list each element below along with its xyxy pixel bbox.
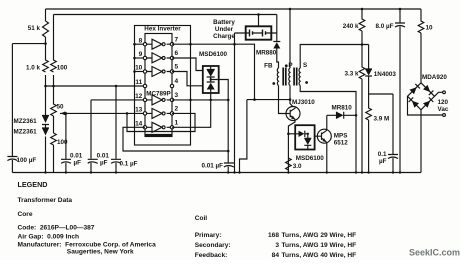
svg-text:13: 13: [135, 107, 143, 114]
wire bottom rail: [12, 172, 421, 174]
svg-text:S: S: [303, 62, 307, 69]
svg-text:Air Gap: 0.009 Inch: Air Gap: 0.009 Inch: [18, 234, 80, 241]
svg-text:SeekIC.com: SeekIC.com: [409, 248, 460, 258]
diode block MSD6100 no.2: [288, 125, 314, 149]
resistor 3.0: [286, 158, 292, 170]
svg-text:µF: µF: [74, 160, 82, 167]
wire MPS6512 emitter down: [325, 142, 328, 173]
node J3: [52, 85, 55, 88]
wire pin 5 to MSD6100 lower: [172, 72, 203, 86]
svg-text:1: 1: [175, 120, 179, 127]
capacitor 0.01 uF no.3: [224, 151, 234, 173]
resistor 1.0 k: [43, 44, 49, 86]
svg-text:MJ3010: MJ3010: [292, 99, 315, 106]
node FB phase dot: [272, 82, 275, 85]
svg-text:µF: µF: [379, 158, 387, 165]
pin 9 stub: [135, 57, 146, 59]
pin 11/4 connection circles: [143, 84, 146, 87]
legend text block: [18, 180, 460, 259]
wire jog drop to rail: [240, 100, 247, 173]
pin 10 stub: [135, 71, 146, 73]
wire S winding bottom: [300, 86, 356, 173]
svg-text:0.1 µF: 0.1 µF: [120, 161, 138, 168]
inverter gate 3: [143, 67, 173, 77]
svg-text:3.3 k: 3.3 k: [344, 71, 359, 78]
wire top rail 2: [54, 14, 277, 16]
wire pin 14 loop: [123, 127, 228, 151]
wire MPS6512 collector up: [326, 115, 328, 130]
svg-text:6: 6: [175, 50, 179, 57]
wire P winding to top rail: [289, 9, 291, 68]
zener diode MZ2361 (upper): [42, 86, 49, 127]
svg-text:0.01 µF: 0.01 µF: [202, 163, 224, 170]
svg-text:Saugerties, New York: Saugerties, New York: [67, 249, 134, 256]
wire battery top to rail 2: [258, 15, 260, 27]
svg-text:Secondary:: Secondary:: [195, 242, 231, 249]
svg-text:11: 11: [135, 79, 142, 86]
svg-text:Transformer Data: Transformer Data: [18, 197, 73, 204]
svg-text:3.9 M: 3.9 M: [374, 116, 390, 123]
svg-text:0.1: 0.1: [378, 151, 387, 158]
diode 1N4003: [365, 45, 372, 95]
battery under charge box: [246, 26, 272, 39]
wire pin 7 to battery column and MJ3010 collector: [172, 44, 290, 99]
svg-text:MPS: MPS: [334, 133, 348, 140]
wire MSD6100 no.2 to MPS6512 base: [314, 135, 316, 137]
wire MSD6100 mid tap to 0.01uF no.3: [211, 80, 229, 152]
svg-text:10: 10: [135, 65, 143, 72]
capacitor 0.01 uF no.2: [88, 159, 98, 172]
svg-text:Under: Under: [215, 26, 234, 33]
diode MR880: [273, 42, 280, 69]
svg-text:8: 8: [139, 38, 143, 45]
node rail junctions: [44, 171, 46, 173]
resistor 10: [418, 9, 424, 83]
bridge rectifier MDA920: [408, 83, 435, 110]
wire 0.01uF no.1 drop: [65, 113, 67, 158]
zener diode MZ2361 (lower): [42, 127, 49, 173]
transformer T1 secondary winding: [299, 68, 300, 86]
svg-text:MDA920: MDA920: [422, 74, 447, 81]
svg-text:MC789P: MC789P: [146, 91, 171, 98]
svg-text:4: 4: [175, 78, 179, 85]
svg-text:84: 84: [272, 252, 280, 259]
svg-text:0.01: 0.01: [70, 153, 83, 160]
svg-text:µF: µF: [100, 160, 108, 167]
svg-text:Vac: Vac: [438, 106, 449, 113]
transistor MJ3010: [283, 107, 300, 121]
svg-text:Turns, AWG 19 Wire, HF: Turns, AWG 19 Wire, HF: [282, 242, 357, 249]
svg-text:Manufacturer: Ferroxcube Corp: Manufacturer: Ferroxcube Corp. of Americ…: [18, 242, 157, 249]
wire battery right to MR880: [271, 15, 277, 42]
wire pin 2 loop: [127, 113, 195, 131]
svg-text:MZ2361: MZ2361: [14, 129, 38, 136]
potentiometer 50: [51, 86, 57, 133]
svg-text:Code: 2616P—L00—387: Code: 2616P—L00—387: [18, 225, 95, 232]
wire J1 to left branch: [12, 43, 45, 45]
inverter gate 1: [143, 39, 173, 49]
svg-text:1.0 k: 1.0 k: [26, 65, 41, 72]
wire bridge left to lower terminal: [408, 96, 443, 115]
op-amp IC MC789P body: [145, 34, 172, 137]
wire wiper W3 to pin 13: [60, 112, 145, 114]
wire W2 to pin 11: [46, 85, 146, 87]
svg-text:MR880: MR880: [256, 50, 277, 57]
svg-text:9: 9: [139, 51, 143, 58]
transformer T1 primary winding: [289, 68, 290, 86]
wire pin 3 row: [172, 99, 228, 101]
svg-text:50: 50: [57, 104, 65, 111]
resistor 100 (lower): [51, 133, 57, 173]
svg-text:2: 2: [175, 106, 179, 113]
node P phase dot: [285, 64, 288, 67]
resistor 3.9 M: [366, 94, 372, 173]
svg-text:168: 168: [268, 232, 279, 239]
resistor 100 (upper): [51, 15, 57, 87]
wire P winding bottom to MJ3010: [289, 86, 291, 100]
svg-text:MZ2361: MZ2361: [14, 118, 38, 125]
svg-text:240 k: 240 k: [343, 23, 359, 30]
hex inverter outer frame: [135, 26, 191, 146]
node S phase dot: [305, 81, 308, 84]
diode MR810: [327, 112, 356, 119]
resistor 240 k: [359, 9, 365, 45]
resistor 3.3 k: [359, 45, 365, 173]
node W2-0.1uF junction: [115, 85, 118, 88]
wire W4 to pin 12: [91, 100, 145, 159]
svg-text:8.0 µF: 8.0 µF: [376, 23, 394, 30]
wire bridge right to terminal: [435, 92, 443, 96]
node wiper junction: [65, 112, 68, 115]
transformer core 1: [283, 68, 286, 86]
diode block MSD6100 no.1: [203, 66, 219, 93]
inverter gate 6: [143, 122, 173, 132]
svg-text:3.0: 3.0: [293, 163, 302, 170]
svg-text:MSD6100: MSD6100: [199, 51, 227, 58]
capacitor 0.1 uF (right): [388, 94, 398, 173]
capacitor 0.01 uF no.1: [61, 159, 71, 172]
pin 8 stub: [135, 43, 146, 45]
transformer core 2: [294, 68, 297, 86]
wire bridge bottom down: [420, 110, 422, 173]
wire 0.1uF drop: [115, 86, 117, 159]
node J2: [44, 85, 47, 88]
inverter gate 4: [143, 95, 173, 105]
svg-text:12: 12: [135, 93, 143, 100]
svg-text:3: 3: [175, 92, 179, 99]
capacitor 0.1 uF: [111, 159, 121, 172]
svg-text:3: 3: [275, 242, 279, 249]
transformer T1 feedback winding: [277, 68, 278, 86]
svg-text:0.01: 0.01: [97, 153, 110, 160]
svg-text:MR810: MR810: [332, 104, 353, 111]
wire pin 1 loop to MSD6100: [172, 100, 211, 127]
svg-text:Turns, AWG 29 Wire, HF: Turns, AWG 29 Wire, HF: [282, 232, 357, 239]
svg-text:6512: 6512: [334, 140, 349, 147]
resistor 51 k: [43, 9, 49, 44]
transistor MPS6512: [315, 129, 332, 143]
svg-text:Turns, AWG 40 Wire, HF: Turns, AWG 40 Wire, HF: [282, 252, 357, 259]
inverter gate 2: [143, 53, 173, 63]
svg-text:LEGEND: LEGEND: [18, 180, 48, 189]
svg-text:Hex Inverter: Hex Inverter: [144, 26, 181, 33]
svg-text:Core: Core: [18, 211, 33, 218]
svg-text:10: 10: [426, 25, 434, 32]
svg-text:5: 5: [175, 64, 179, 71]
svg-text:100 µF: 100 µF: [17, 157, 37, 164]
svg-text:51 k: 51 k: [28, 25, 41, 32]
svg-text:100: 100: [57, 65, 68, 72]
svg-text:Feedback:: Feedback:: [195, 252, 228, 259]
svg-text:14: 14: [135, 121, 143, 128]
svg-text:MSD6100: MSD6100: [296, 155, 324, 162]
inverter gate 5: [143, 108, 173, 118]
wire S winding top W6: [300, 45, 368, 69]
svg-text:1N4003: 1N4003: [374, 71, 397, 78]
svg-text:Battery: Battery: [213, 19, 235, 26]
wire 1N4003 to 0.1uF branch: [369, 93, 393, 95]
wire battery left column: [235, 33, 246, 173]
wire FB winding to MJ3010 base: [279, 86, 284, 114]
capacitor 100 uF: [7, 44, 17, 173]
node J1: [44, 42, 47, 45]
wire MJ3010 emitter down: [288, 119, 295, 172]
svg-text:Primary:: Primary:: [195, 232, 222, 239]
svg-text:Charge: Charge: [213, 33, 235, 40]
svg-text:FB: FB: [264, 63, 273, 70]
wire MSD6100 bottom stub: [210, 93, 212, 100]
wire top rail 1: [46, 8, 422, 10]
wire pin 6 to MSD6100 upper: [172, 58, 203, 71]
svg-text:7: 7: [175, 37, 179, 44]
capacitor 8.0 uF: [395, 9, 405, 173]
svg-text:Coil: Coil: [195, 215, 208, 222]
